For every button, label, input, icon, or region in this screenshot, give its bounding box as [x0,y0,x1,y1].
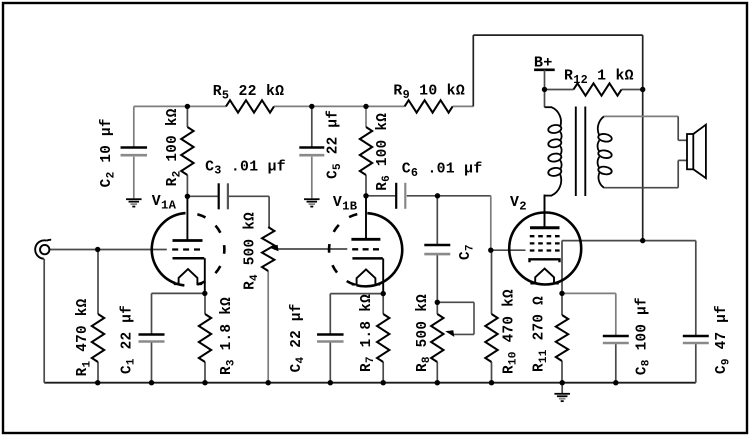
svg-text:B+: B+ [534,53,553,71]
